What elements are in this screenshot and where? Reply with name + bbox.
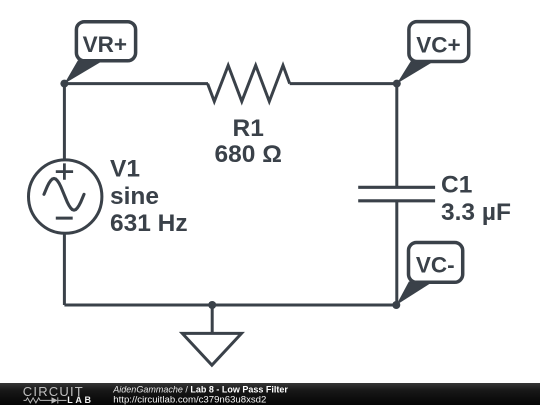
node VC+ junction dot (393, 80, 401, 88)
capacitor C1 bottom plate (358, 199, 435, 202)
wire right vertical lower (C1 to node VC-) (395, 201, 398, 305)
svg-text:VC+: VC+ (416, 32, 460, 57)
svg-text:C1: C1 (441, 172, 472, 199)
svg-text:http://circuitlab.com/c379n63u: http://circuitlab.com/c379n63u8xsd2 (113, 394, 266, 405)
svg-text:R1: R1 (233, 115, 264, 142)
ground junction dot (208, 301, 216, 309)
svg-text:VR+: VR+ (83, 32, 127, 57)
svg-text:V1: V1 (110, 156, 140, 183)
footer bar (0, 383, 540, 405)
svg-text:sine: sine (110, 183, 159, 210)
svg-text:AidenGammache / Lab 8 - Low Pa: AidenGammache / Lab 8 - Low Pass Filter (112, 385, 288, 395)
voltage source V1 (28, 160, 101, 233)
node VC- junction dot (392, 301, 400, 309)
svg-text:3.3 µF: 3.3 µF (441, 199, 511, 226)
wire bottom rail (64, 304, 396, 307)
flag box VC+ (409, 22, 469, 62)
node VR+ junction dot (60, 80, 68, 88)
capacitor C1 top plate (358, 186, 435, 189)
flag pointer VC- (396, 282, 433, 306)
flag box VC- (409, 243, 463, 283)
footer logo resistor-diode symbol (24, 397, 67, 403)
svg-text:680 Ω: 680 Ω (215, 141, 282, 168)
ground stem wire (211, 305, 214, 333)
wire R1 to node VC+ (290, 82, 397, 85)
V1 plus sign (56, 163, 73, 179)
ground (182, 333, 241, 365)
flag pointer VR+ (64, 61, 103, 84)
V1 sine symbol (44, 179, 84, 211)
svg-text:VC-: VC- (416, 253, 455, 278)
svg-text:631 Hz: 631 Hz (110, 210, 188, 237)
svg-text:LAB: LAB (67, 395, 93, 405)
wire right vertical upper (VC+ node to C1) (395, 84, 398, 188)
flag pointer VC+ (397, 61, 435, 84)
resistor R1 (208, 65, 290, 101)
V1 minus sign (56, 217, 73, 220)
wire left vertical upper (VR+ node to V1) (63, 84, 66, 160)
wire left vertical lower (V1 to bottom rail) (63, 233, 66, 305)
footer credit line (112, 385, 288, 405)
flag box VR+ (76, 22, 135, 61)
wire top-left horizontal (node VR+ to R1) (64, 82, 208, 85)
